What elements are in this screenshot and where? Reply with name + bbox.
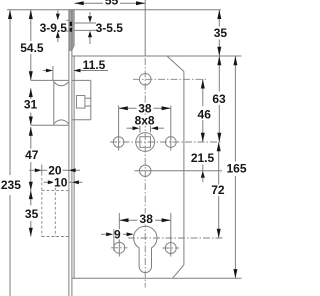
svg-text:3-9.5: 3-9.5	[40, 21, 68, 35]
top faceplate tick marks	[70, 22, 72, 32]
case front wall	[73, 56, 75, 278]
svg-text:35: 35	[25, 207, 39, 221]
top faceplate detail lines right	[75, 23, 96, 30]
svg-text:47: 47	[25, 148, 39, 162]
wechsel hole	[140, 165, 151, 176]
case top edge with extension	[72, 55, 242, 57]
dimension 54.5	[19, 10, 44, 81]
extension line 55 right	[144, 0, 146, 56]
cylinder horizontal centerline	[128, 237, 224, 239]
dimension 11.5	[43, 58, 108, 73]
extension line latch tip (11.5)	[52, 66, 54, 80]
spindle square 8x8	[140, 137, 151, 148]
wechsel hole centerline extension	[135, 170, 223, 172]
dimension 46	[198, 79, 212, 142]
dimension 235	[1, 10, 21, 296]
dimension 35 top-right	[214, 10, 228, 56]
case bottom-right chamfer	[173, 265, 184, 278]
dimension 9	[101, 227, 134, 241]
latch spring connector upper	[85, 97, 91, 99]
svg-text:9: 9	[114, 227, 121, 241]
top reference line (faceplate top end)	[7, 9, 221, 11]
dimension 10	[44, 175, 83, 189]
faceplate cross-section (top, filled)	[69, 10, 74, 51]
dimension 3-5.5	[88, 12, 123, 44]
case right edge	[183, 72, 185, 265]
svg-text:165: 165	[226, 162, 246, 176]
svg-text:54.5: 54.5	[20, 41, 44, 55]
svg-text:10: 10	[54, 175, 68, 189]
svg-text:38: 38	[140, 212, 154, 226]
dimension 47	[23, 127, 40, 190]
latch bolt face	[53, 80, 55, 125]
latch housing right	[90, 80, 92, 119]
screw hole top-right	[165, 106, 176, 151]
screw hole top-left	[113, 106, 124, 151]
hub hole	[139, 74, 151, 86]
deadbolt dashed bottom	[42, 236, 69, 238]
screw hole bottom-left	[111, 213, 128, 257]
dimension 21.5	[191, 151, 215, 182]
hub horizontal centerline	[133, 78, 207, 80]
latch spring connector lower	[85, 105, 91, 107]
case top-right chamfer	[167, 56, 184, 72]
latch bottom line (extension to dim)	[31, 124, 69, 126]
latch bevel arc top	[54, 82, 69, 86]
svg-text:235: 235	[1, 178, 21, 192]
svg-text:31: 31	[24, 97, 38, 111]
main vertical centerline	[144, 58, 146, 288]
dimension 55 top	[75, 0, 146, 8]
dimension 20	[29, 163, 80, 177]
svg-text:11.5: 11.5	[83, 58, 106, 72]
dimension 38 bottom	[119, 212, 171, 226]
dimension 63	[212, 56, 226, 142]
dimension 31	[24, 88, 38, 125]
latch housing top	[72, 79, 91, 81]
svg-text:63: 63	[212, 92, 226, 106]
dimension 8x8	[127, 113, 165, 132]
latch bevel arc bottom	[54, 120, 69, 124]
svg-text:46: 46	[198, 107, 212, 121]
screw hole bottom-right	[163, 213, 180, 257]
deadbolt half-thrown dashed line	[54, 178, 56, 237]
dimension 165	[226, 56, 246, 278]
spindle row horizontal centerline	[110, 141, 222, 143]
top faceplate detail lines left	[66, 20, 69, 31]
svg-text:21.5: 21.5	[191, 151, 215, 165]
svg-text:35: 35	[214, 26, 228, 40]
case bottom edge with extension	[72, 277, 242, 279]
extension line for 9	[113, 229, 115, 251]
svg-text:3-5.5: 3-5.5	[96, 21, 124, 35]
svg-text:8x8: 8x8	[135, 113, 155, 127]
dimension 38 top	[119, 102, 171, 116]
latch top line (extension to dim)	[31, 79, 69, 81]
deadbolt dashed top	[42, 189, 69, 191]
svg-text:72: 72	[211, 183, 225, 197]
svg-text:55: 55	[105, 0, 119, 8]
faceplate back edge	[71, 10, 73, 296]
dimension 3-9.5	[40, 10, 68, 42]
dimension 35 lower-left	[24, 190, 41, 236]
dimension 72	[211, 142, 225, 238]
latch housing bottom	[72, 119, 91, 121]
latch spring block	[77, 96, 85, 109]
cylinder europrofile hole	[134, 226, 157, 272]
spindle follower circle	[136, 133, 155, 152]
deadbolt thrown position dashed front	[41, 165, 43, 237]
faceplate front edge	[68, 10, 70, 296]
